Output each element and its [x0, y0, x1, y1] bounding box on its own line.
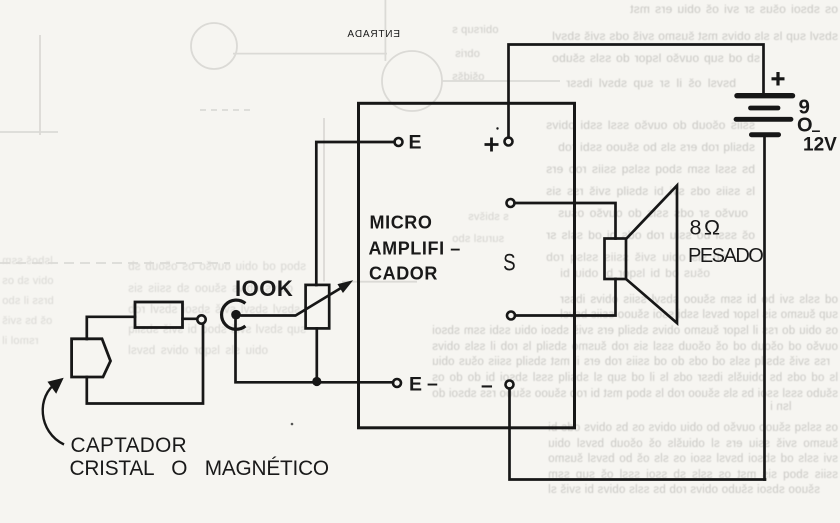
- svg-text:E: E: [409, 132, 422, 154]
- wire S lower: from terminal S2 right to speaker bottom: [515, 279, 616, 316]
- svg-text:CADOR: CADOR: [369, 263, 438, 283]
- wire E- return: from terminal E- left to corner below jack, up to jack sleeve: [236, 317, 394, 382]
- svg-text:MICRO: MICRO: [370, 212, 433, 232]
- terminal E: [395, 138, 403, 146]
- speck: [291, 423, 294, 426]
- svg-text:E: E: [409, 374, 422, 396]
- svg-text:IOOK: IOOK: [235, 276, 293, 301]
- terminal -: [506, 381, 514, 389]
- svg-text:AMPLIFI –: AMPLIFI –: [369, 239, 461, 259]
- terminal S2: [507, 312, 515, 320]
- terminal E-: [393, 379, 401, 387]
- wire pickup top: rect left to pentagon top: [87, 317, 135, 339]
- potentiometer R1 body: [306, 285, 330, 329]
- terminal +: [505, 138, 513, 146]
- wire pickup bottom: pentagon bottom down, right, up to plug: [87, 324, 203, 404]
- svg-text:CAPTADOR: CAPTADOR: [71, 434, 187, 457]
- curved pointer arrow: [43, 383, 64, 445]
- wire potentiometer bottom to junction: [315, 328, 318, 381]
- svg-text:S: S: [503, 249, 515, 276]
- terminal S1: [507, 199, 515, 207]
- potentiometer R1 wiper arrow: [241, 287, 343, 315]
- svg-text:CRISTAL O MAGNÉTICO: CRISTAL O MAGNÉTICO: [70, 457, 329, 480]
- wire S upper: from terminal S1 right to speaker top: [515, 203, 616, 239]
- jack J1 tip contact: [231, 310, 241, 320]
- wire E input: from terminal E left, out of box, down to potentiometer top: [316, 142, 394, 285]
- junction dot: [312, 377, 321, 386]
- plug terminal: [197, 315, 205, 323]
- svg-text:O: O: [797, 115, 813, 137]
- speaker LS1 driver: [605, 239, 627, 280]
- svg-text:PESADO: PESADO: [688, 245, 763, 267]
- amplifier box U1: [359, 103, 575, 428]
- wire pickup rect to plug: [183, 317, 197, 320]
- label +: [485, 138, 499, 152]
- battery B1 plates: [737, 93, 793, 98]
- pickup cartridge body rect: [135, 302, 183, 328]
- pickup crystal element pentagon: [72, 339, 111, 377]
- wire battery negative lead: [763, 137, 766, 480]
- jack J1 sleeve arc: [222, 300, 246, 329]
- svg-text:12V: 12V: [803, 135, 837, 156]
- wire - output: from terminal - down and right along bottom to battery negative: [510, 389, 766, 480]
- speaker LS1 cone: [626, 186, 677, 324]
- wire + supply: from terminal + up and right to battery positive: [509, 45, 764, 138]
- label battery +: [772, 72, 785, 86]
- faint page bleed-through background: [630, 2, 838, 16]
- svg-text:–: –: [481, 374, 493, 397]
- svg-text:8Ω: 8Ω: [690, 216, 723, 240]
- svg-text:–: –: [427, 373, 438, 395]
